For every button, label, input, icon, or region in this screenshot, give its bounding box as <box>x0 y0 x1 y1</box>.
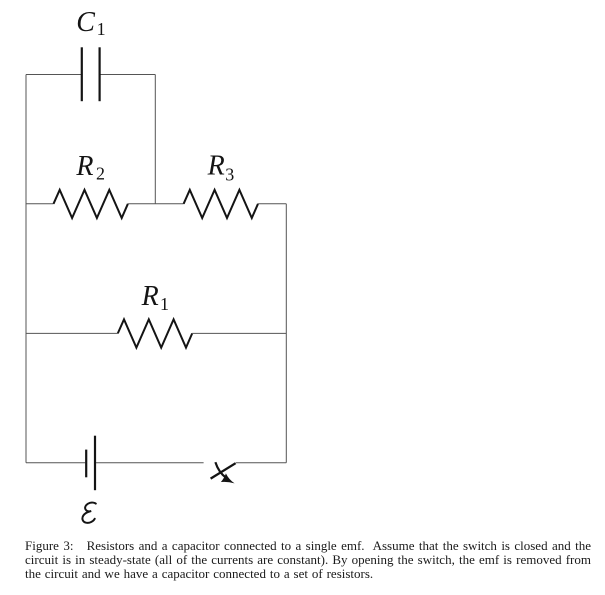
wire R1 row left segment <box>26 332 118 334</box>
svg-text:1: 1 <box>97 19 106 39</box>
wire right branch of C1 down to R2-R3 node <box>154 75 156 204</box>
label R3 <box>207 151 235 185</box>
wire bottom left segment <box>26 462 85 464</box>
resistor R2 <box>54 190 128 218</box>
label R2 <box>75 151 105 184</box>
svg-text:C: C <box>76 7 95 38</box>
wire C1 to top-right corner <box>100 74 155 76</box>
wire top left to C1 <box>26 74 81 76</box>
label EMF script E <box>82 503 95 523</box>
battery EMF source <box>86 436 95 491</box>
switch opening arrow <box>215 462 234 483</box>
resistor R3 <box>184 190 258 218</box>
svg-text:R: R <box>207 151 225 182</box>
svg-text:R: R <box>141 281 159 312</box>
figure caption <box>25 539 591 582</box>
wire R1 row right segment <box>192 332 286 334</box>
wire middle row right segment <box>258 203 286 205</box>
wire middle row left segment <box>26 203 54 205</box>
svg-text:2: 2 <box>96 164 105 184</box>
wire middle row between R2 and R3 (node at x=155) <box>128 203 184 205</box>
svg-text:3: 3 <box>225 164 234 184</box>
switch S (blade) <box>211 463 236 478</box>
svg-text:1: 1 <box>160 294 169 314</box>
wire bottom middle segment <box>96 462 204 464</box>
resistor R1 <box>118 319 192 347</box>
wire left vertical branch <box>25 75 27 463</box>
capacitor C1 <box>82 47 100 101</box>
wire right vertical branch <box>285 204 287 463</box>
label R1 <box>141 281 169 314</box>
svg-text:R: R <box>75 151 93 182</box>
label C1 <box>76 7 105 39</box>
wire bottom right segment <box>236 462 286 464</box>
